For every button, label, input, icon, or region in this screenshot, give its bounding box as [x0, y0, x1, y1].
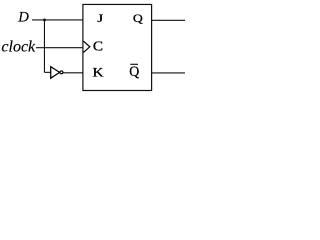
svg-text:K: K — [93, 66, 104, 80]
junction dot on D wire — [43, 18, 46, 21]
clock edge-trigger triangle at C — [84, 41, 90, 52]
wire clock to C input — [36, 47, 83, 49]
svg-text:J: J — [97, 11, 103, 25]
wire to inverter input — [44, 71, 50, 73]
svg-text:Q: Q — [129, 64, 139, 80]
svg-text:C: C — [93, 40, 103, 55]
wire D to J input — [32, 19, 83, 21]
flip-flop U1 body — [83, 4, 152, 90]
overline of Qbar — [130, 63, 138, 65]
wire junction down to inverter — [43, 20, 45, 72]
wire inverter output to K input — [63, 72, 83, 74]
svg-text:clock: clock — [1, 39, 36, 56]
wire Qbar output — [151, 72, 185, 74]
wire Q output — [151, 19, 185, 21]
svg-text:Q: Q — [133, 11, 143, 25]
inverter U2 triangle — [51, 67, 60, 79]
inverter U2 bubble — [60, 71, 63, 74]
svg-text:D: D — [17, 10, 29, 26]
